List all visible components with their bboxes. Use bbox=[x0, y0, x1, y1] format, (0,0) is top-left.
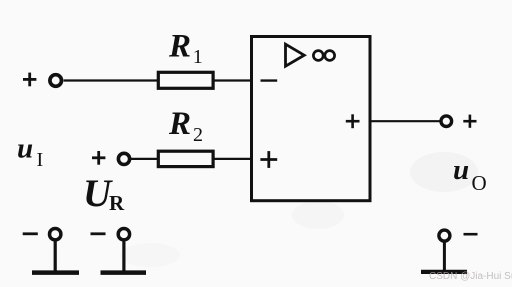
ground terminal 3 bar bbox=[421, 270, 467, 274]
input terminal 1 plus sign bbox=[23, 73, 36, 87]
ground terminal 2 stem wire bbox=[122, 242, 125, 272]
svg-text:2: 2 bbox=[193, 124, 203, 146]
svg-text:u: u bbox=[453, 154, 469, 186]
wire input1 to R1 bbox=[64, 79, 158, 81]
ground terminal 1 stem wire bbox=[54, 242, 57, 272]
ground terminal 3 circle bbox=[439, 230, 450, 241]
ground terminal 2 circle bbox=[118, 229, 129, 240]
ground terminal 1 minus sign bbox=[23, 232, 38, 235]
svg-text:R: R bbox=[168, 29, 191, 65]
ground terminal 2 minus sign bbox=[91, 232, 106, 235]
input terminal 1 circle bbox=[50, 75, 62, 87]
infinity gain symbol bbox=[313, 51, 334, 61]
wire input2 to R2 bbox=[131, 158, 158, 160]
ground terminal 3 minus sign bbox=[464, 233, 478, 236]
svg-text:I: I bbox=[37, 149, 44, 171]
output plus polarity label inside box bbox=[346, 114, 360, 128]
ground terminal 2 bar bbox=[101, 270, 147, 275]
svg-text:u: u bbox=[17, 133, 33, 165]
output terminal circle bbox=[441, 116, 452, 127]
svg-text:1: 1 bbox=[193, 46, 203, 68]
input terminal 2 plus sign bbox=[92, 151, 105, 165]
svg-text:R: R bbox=[168, 106, 191, 142]
wire op-amp output bbox=[370, 120, 440, 122]
non-inverting input plus label bbox=[260, 151, 277, 168]
wire R2 to op-amp non-inverting input bbox=[213, 158, 252, 160]
svg-text:O: O bbox=[472, 171, 487, 195]
resistor R1 bbox=[158, 72, 213, 88]
ground terminal 3 stem wire bbox=[443, 243, 446, 271]
inverting input minus label bbox=[261, 79, 278, 81]
op-amp gain triangle symbol bbox=[286, 44, 305, 66]
input terminal 2 circle bbox=[118, 153, 129, 164]
svg-text:CSDN @Jia-Hui Su: CSDN @Jia-Hui Su bbox=[429, 271, 512, 282]
wire R1 to op-amp inverting input bbox=[213, 79, 252, 81]
op-amp U1 body bbox=[252, 37, 371, 201]
resistor R2 bbox=[158, 151, 213, 166]
output terminal plus sign bbox=[463, 115, 476, 128]
ground terminal 1 bar bbox=[32, 270, 79, 275]
svg-text:R: R bbox=[109, 191, 125, 215]
ground terminal 1 circle bbox=[50, 229, 61, 240]
